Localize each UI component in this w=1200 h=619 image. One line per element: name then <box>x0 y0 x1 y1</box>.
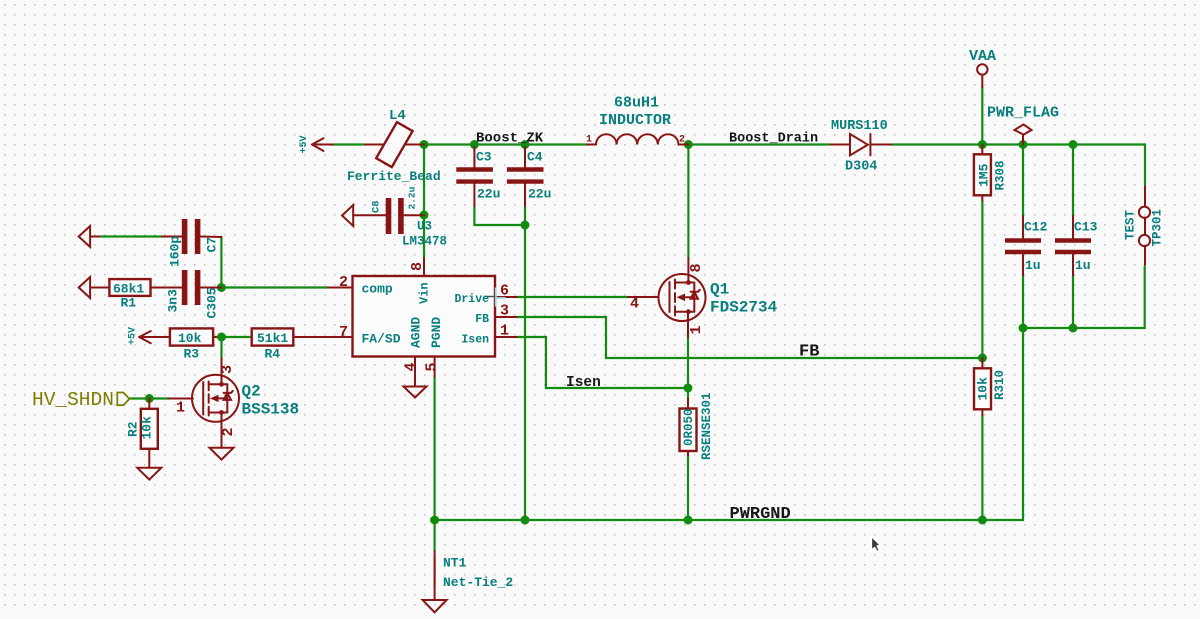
node FB R310 junction <box>978 354 987 363</box>
resistor R308 1M5 vertical <box>974 145 991 201</box>
wire comp node to pin 2 <box>221 286 328 288</box>
inductor L4 ferrite bead <box>365 122 424 167</box>
wire Q1 drain column <box>687 145 689 259</box>
svg-text:Isen: Isen <box>566 375 601 391</box>
resistor R2 10k vertical <box>141 399 158 468</box>
svg-text:Boost_Drain: Boost_Drain <box>729 132 818 147</box>
inductor 68uH1 <box>587 134 688 144</box>
transistor Q1 FDS2734 <box>628 258 706 337</box>
svg-text:R4: R4 <box>265 347 281 362</box>
svg-text:LM3478: LM3478 <box>402 235 447 249</box>
wire Vin column C8 junction down to pin 8 <box>423 215 425 258</box>
svg-text:L4: L4 <box>389 108 406 124</box>
wire PWRGND riser to C12 rail <box>1022 328 1024 520</box>
node PWRGND RSENSE junction <box>684 516 693 525</box>
svg-text:FDS2734: FDS2734 <box>710 299 778 317</box>
svg-text:+5V: +5V <box>128 327 139 345</box>
wire FB pin 3 to FB rail <box>517 317 983 358</box>
svg-text:3n3: 3n3 <box>166 289 181 313</box>
node comp junction <box>217 283 226 292</box>
wire C13 top column <box>1072 145 1074 217</box>
ic U3 LM3478 body <box>353 276 496 357</box>
svg-text:TEST: TEST <box>1124 209 1138 240</box>
svg-text:Boost_ZK: Boost_ZK <box>476 131 544 147</box>
wire R3 R4 junction row <box>216 336 252 338</box>
svg-text:MURS110: MURS110 <box>831 119 888 134</box>
svg-text:PWR_FLAG: PWR_FLAG <box>987 105 1059 122</box>
svg-text:22u: 22u <box>477 187 500 202</box>
svg-text:4: 4 <box>630 296 639 313</box>
wire Drive pin 6 to Q1 gate <box>517 296 628 298</box>
wire C7 right corner down to comp node <box>220 237 222 288</box>
pin 2 comp <box>328 287 353 289</box>
svg-text:1: 1 <box>586 135 592 146</box>
svg-text:10k: 10k <box>178 331 202 346</box>
svg-text:VAA: VAA <box>969 48 996 65</box>
svg-text:68k1: 68k1 <box>113 282 144 297</box>
wire bead junction down to C8 junction <box>423 145 425 216</box>
svg-text:1: 1 <box>500 323 509 340</box>
svg-text:R2: R2 <box>126 421 141 437</box>
capacitor C12 <box>1005 216 1041 275</box>
svg-text:C305: C305 <box>205 287 220 318</box>
wire top rail bead junction to inductor <box>424 143 587 145</box>
svg-text:FB: FB <box>799 343 819 362</box>
pin 4 AGND <box>414 357 416 387</box>
svg-text:PGND: PGND <box>429 317 444 348</box>
svg-text:D304: D304 <box>845 160 877 175</box>
pin 8 Vin <box>423 258 425 276</box>
wire Q1 source to RSENSE <box>687 331 689 399</box>
svg-text:Isen: Isen <box>461 334 489 347</box>
svg-text:1: 1 <box>688 325 705 334</box>
transistor Q2 BSS138 <box>169 359 240 448</box>
svg-text:Drive: Drive <box>454 293 489 306</box>
svg-text:5: 5 <box>424 362 441 371</box>
svg-text:R308: R308 <box>994 160 1008 190</box>
resistor R4 51k1 <box>252 328 353 345</box>
svg-text:Q1: Q1 <box>710 281 729 299</box>
node C12 bottom junction <box>1019 324 1028 333</box>
svg-text:FB: FB <box>475 313 489 326</box>
resistor R3 10k <box>170 328 216 345</box>
svg-text:2: 2 <box>339 274 348 291</box>
net tie NT1 <box>434 551 436 600</box>
svg-text:C12: C12 <box>1024 220 1048 235</box>
ground below R2 <box>137 468 161 480</box>
node C4 top junction <box>521 140 530 149</box>
wire Boost_Drain inductor to diode <box>688 143 830 145</box>
svg-text:Vin: Vin <box>418 282 432 304</box>
svg-text:C7: C7 <box>205 237 220 253</box>
svg-text:8: 8 <box>688 263 705 272</box>
resistor R1 68k1 with input arrow <box>79 277 183 298</box>
wire C3 top pin stub <box>473 145 475 151</box>
hierarchical label HV_SHDN <box>32 389 129 411</box>
resistor R310 10k vertical <box>974 358 991 415</box>
resistor RSENSE301 0R050 vertical <box>680 399 697 456</box>
pin 7 FA/SD <box>328 336 353 338</box>
svg-text:C4: C4 <box>527 150 543 165</box>
capacitor C305 <box>185 270 222 305</box>
node C13 bottom junction <box>1069 324 1078 333</box>
node VAA rail junction R308 <box>978 140 987 149</box>
power symbol +5V at R3 <box>128 327 171 345</box>
svg-text:R310: R310 <box>993 370 1007 400</box>
ground below Q2 <box>210 448 234 460</box>
svg-text:C8: C8 <box>371 200 383 213</box>
svg-text:HV_SHDN: HV_SHDN <box>32 389 114 411</box>
node inductor output junction <box>684 140 693 149</box>
capacitor C3 <box>456 147 493 206</box>
svg-text:C13: C13 <box>1074 220 1098 235</box>
capacitor C8 with input arrow <box>342 198 424 234</box>
power symbol VAA <box>977 64 987 87</box>
pin 6 Drive <box>495 296 517 298</box>
node HV_SHDN R2 junction <box>145 394 154 403</box>
wire C12 C13 bottom rail to test point <box>1023 266 1145 328</box>
wire C7 left <box>99 235 162 237</box>
node R3 R4 junction <box>217 333 226 342</box>
pin 3 FB <box>495 316 517 318</box>
cursor crosshair on pin 6 <box>485 288 506 307</box>
node C3 top junction <box>470 140 479 149</box>
svg-text:comp: comp <box>362 282 393 297</box>
node Isen RSENSE junction <box>684 384 693 393</box>
wire C12 top column <box>1022 145 1024 217</box>
svg-text:8: 8 <box>409 262 426 271</box>
svg-text:160p: 160p <box>168 236 183 267</box>
svg-text:22u: 22u <box>528 187 551 202</box>
wire C13 bottom column <box>1072 275 1074 328</box>
diode D304 MURS110 <box>831 134 892 155</box>
svg-text:Q2: Q2 <box>242 383 261 401</box>
pin 5 PGND <box>434 357 436 378</box>
wire HV_SHDN to Q2 gate <box>129 397 168 399</box>
pin 1 Isen <box>495 336 517 338</box>
capacitor C13 <box>1055 216 1091 275</box>
svg-text:1: 1 <box>176 400 185 417</box>
svg-text:Ferrite_Bead: Ferrite_Bead <box>347 169 441 184</box>
ground below NT1 <box>423 600 447 612</box>
wire R310 bottom to PWRGND <box>981 415 983 520</box>
wire VAA symbol drop <box>981 87 983 145</box>
svg-text:1u: 1u <box>1075 258 1091 273</box>
node C3 C4 bottom junction <box>521 221 530 230</box>
svg-text:2: 2 <box>679 135 685 146</box>
svg-text:7: 7 <box>339 324 348 341</box>
wire C4 bottom rail down to PWRGND <box>524 206 526 520</box>
wire Isen pin 1 to Isen rail <box>517 337 688 388</box>
node bead output junction <box>420 140 429 149</box>
power flag PWR_FLAG <box>1015 124 1032 144</box>
svg-text:6: 6 <box>500 283 509 300</box>
svg-text:1M5: 1M5 <box>977 163 992 187</box>
wire RSENSE bottom to PWRGND <box>687 456 689 521</box>
wire NT1 stub <box>434 520 436 551</box>
svg-text:BSS138: BSS138 <box>242 401 300 419</box>
svg-text:AGND: AGND <box>409 317 424 348</box>
svg-text:TP301: TP301 <box>1151 209 1165 247</box>
svg-text:FA/SD: FA/SD <box>362 332 401 347</box>
svg-text:INDUCTOR: INDUCTOR <box>599 112 671 129</box>
capacitor C4 <box>507 147 544 206</box>
svg-text:C3: C3 <box>476 150 492 165</box>
svg-text:R1: R1 <box>121 296 137 311</box>
ground below AGND pin 4 <box>404 387 427 398</box>
node PWRGND NT1 junction <box>430 516 439 525</box>
wire C3 bottom to C4 bottom rail <box>474 206 525 225</box>
wire PWRGND rail <box>435 519 1023 521</box>
node PWRGND x525 junction <box>521 516 530 525</box>
svg-text:1u: 1u <box>1025 258 1041 273</box>
svg-text:3: 3 <box>219 365 236 374</box>
node VAA rail junction C12 <box>1019 140 1028 149</box>
wire VAA rail diode to right corner <box>892 145 1146 187</box>
wire PGND column <box>434 377 436 520</box>
wire R308 bottom to FB node <box>981 201 983 359</box>
wire Q2 drain column <box>220 337 222 359</box>
svg-text:51k1: 51k1 <box>257 331 288 346</box>
svg-text:3: 3 <box>500 303 509 320</box>
svg-text:4: 4 <box>403 362 420 371</box>
svg-text:0R050: 0R050 <box>682 408 696 446</box>
svg-text:RSENSE301: RSENSE301 <box>700 392 714 460</box>
node C8 Vin junction <box>420 211 429 220</box>
svg-text:+5V: +5V <box>299 135 310 153</box>
svg-text:10k: 10k <box>140 416 155 440</box>
node VAA rail junction C13 <box>1069 140 1078 149</box>
svg-text:2: 2 <box>220 427 237 436</box>
svg-text:PWRGND: PWRGND <box>730 505 791 524</box>
svg-text:U3: U3 <box>417 220 432 234</box>
svg-text:68uH1: 68uH1 <box>614 95 659 112</box>
test point TP301 <box>1139 187 1150 265</box>
capacitor C7 with input arrow <box>79 219 222 254</box>
mouse cursor <box>871 536 881 552</box>
node PWRGND R310 junction <box>978 516 987 525</box>
svg-text:NT1: NT1 <box>443 556 467 571</box>
svg-text:R3: R3 <box>184 347 200 362</box>
svg-text:2.2u: 2.2u <box>407 186 418 209</box>
svg-text:Net-Tie_2: Net-Tie_2 <box>443 575 513 590</box>
wire +5V to ferrite bead <box>333 143 365 145</box>
wire C12 bottom column <box>1022 275 1024 328</box>
power symbol +5V top <box>299 135 333 153</box>
svg-text:10k: 10k <box>976 377 991 401</box>
